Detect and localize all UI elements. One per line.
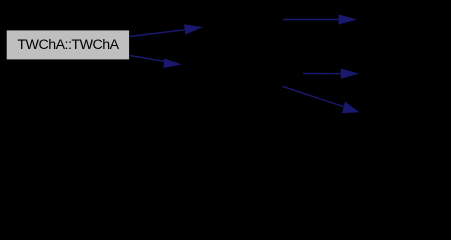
edge arrow 3: hidden middle node to hidden right node (top), wire bbox=[283, 15, 355, 24]
node TWChA::TWChA (root node box) bbox=[6, 30, 129, 60]
edge arrow 2: TWChA::TWChA to hidden node (lower middle), wire bbox=[130, 56, 180, 68]
svg-text:TWChA::TWChA: TWChA::TWChA bbox=[17, 37, 119, 53]
edge arrow 5: hidden middle node to hidden right node (bottom diagonal), wire bbox=[283, 86, 358, 112]
edge arrow 1: TWChA::TWChA to hidden node (upper middle), wire bbox=[130, 25, 201, 37]
edge arrow 4: hidden middle node to hidden right node (middle), wire bbox=[303, 69, 357, 78]
